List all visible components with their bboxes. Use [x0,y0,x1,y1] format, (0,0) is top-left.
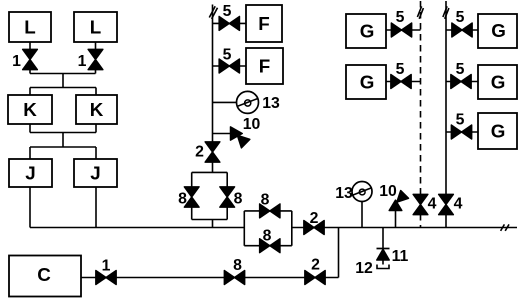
svg-text:2: 2 [311,257,320,274]
wire branch to F2 [213,65,247,67]
svg-text:J: J [25,163,35,184]
wire G left-1 branch [386,29,421,31]
valve 2 bottom line [305,271,325,285]
wire branch to F1 [213,22,247,24]
wire main line right part [292,227,517,229]
valve 5 G right-3 [451,125,471,139]
svg-text:5: 5 [396,61,405,78]
wire K2 inlet stub [95,88,97,96]
svg-text:13: 13 [335,185,353,202]
svg-text:8: 8 [263,228,272,245]
check valve 10 middle: angled triangle [237,135,249,147]
svg-text:K: K [23,99,37,120]
bypass loop 2 rectangle [244,211,291,246]
valve 5 G left-2 [391,75,411,89]
wire K1 outlet stub [29,124,31,133]
valve 8 loop1 right [220,187,235,207]
wire J2 outlet to main line [95,187,97,228]
svg-text:8: 8 [234,191,243,208]
svg-text:13: 13 [262,95,280,112]
valve 1a (under L1) [23,49,38,69]
svg-text:2: 2 [195,144,204,161]
relief valve 11 seat bar [377,248,390,250]
drain stub under valve 11 [382,260,384,265]
svg-text:2: 2 [310,210,319,227]
valve 5 to F1 [219,16,239,30]
valve 8 loop2 top [260,204,280,218]
svg-text:G: G [491,72,506,93]
wire center drop to J header [62,133,64,148]
svg-text:1: 1 [12,53,21,70]
vessel L2 box [74,12,117,42]
svg-text:J: J [90,163,100,184]
break mark solid line [443,6,449,18]
solid supply line [445,1,447,228]
svg-text:10: 10 [243,116,261,133]
drain funnel 12 [377,265,389,269]
svg-text:C: C [37,264,51,285]
vessel C box [9,256,81,297]
wire K1 inlet stub [29,88,31,96]
wire center drop to K header [62,74,64,88]
gauge 13b circle [352,182,372,202]
wire L1 to valve 1a [29,42,31,50]
svg-text:1: 1 [102,258,111,275]
wire stub of check valve 10b [395,211,397,228]
break mark middle riser [209,6,217,19]
svg-text:L: L [90,17,101,38]
break mark dashed line [417,6,423,18]
valve 5 G right-1 [452,23,472,37]
valve 1 after C [96,271,116,285]
svg-text:G: G [491,121,506,142]
svg-text:8: 8 [233,257,242,274]
svg-text:5: 5 [456,61,465,78]
svg-text:4: 4 [454,196,463,213]
wire valve 1a out [29,69,31,74]
wire G right-1 branch [446,29,478,31]
wire header under K [30,132,96,134]
gauge 13 middle internals [238,99,258,107]
gauge 13 middle circle [237,91,259,113]
wire K2 outlet stub [95,124,97,133]
wire C outlet bottom line [81,277,339,279]
valve 4a on dashed line [413,194,428,214]
svg-text:L: L [24,17,35,38]
wire main line left part [30,227,244,229]
svg-text:12: 12 [355,260,373,277]
svg-text:8: 8 [261,192,270,209]
valve 5 G right-2 [451,75,471,89]
wire J1 inlet stub [29,147,31,159]
wire loop 1 to main line [212,220,214,228]
wire G right-2 branch [446,81,478,83]
wire G left-2 branch [386,81,421,83]
vessel J1 box [9,159,52,187]
gauge 13b internals [353,188,371,195]
wire J2 inlet stub [95,147,97,159]
wire branch to relief valve 11 [382,228,384,249]
valve 2 main line [304,221,324,235]
valve 2 middle riser [205,142,220,162]
check valve 10b bottom: angled triangle [397,191,409,203]
svg-text:5: 5 [223,3,232,20]
svg-text:F: F [259,56,270,77]
svg-text:5: 5 [396,9,405,26]
valve 4b on solid line [439,194,454,214]
wire L2 to valve 1b [95,42,97,50]
valve 5 to F2 [219,59,239,73]
svg-text:10: 10 [379,183,397,200]
wire header under valves 1 [30,73,96,75]
vessel G right-2 box [478,65,517,99]
vessel G left-1 box [346,14,386,48]
relief valve 11 triangle [377,249,389,260]
wire branch to check valve 10 [213,133,231,135]
svg-text:K: K [90,99,104,120]
valve 1b (under L2) [88,49,103,69]
svg-text:G: G [360,72,375,93]
svg-text:5: 5 [456,112,465,129]
vessel J2 box [74,159,117,187]
valve 5 G left-1 [391,23,411,37]
wire G right-3 branch [446,131,478,133]
vessel F2 box [246,48,283,84]
svg-text:5: 5 [456,9,465,26]
wire gauge 13b stem [361,201,363,227]
wire branch to gauge 13 [213,101,237,103]
valve 8 bottom line [224,271,244,285]
wire middle riser pipe [212,5,214,173]
vessel L1 box [9,12,51,42]
vessel K1 box [8,95,52,124]
svg-text:1: 1 [78,53,87,70]
svg-text:4: 4 [428,196,437,213]
wire riser bottom line to main line [338,228,340,278]
vessel G right-1 box [478,14,517,48]
check valve 10 middle: horizontal triangle [231,127,243,140]
svg-text:G: G [360,21,375,42]
break mark main line right end [501,224,509,231]
valve 8 loop2 bottom [260,239,280,253]
vessel K2 box [76,95,117,124]
bypass loop 1 rectangle [192,172,228,219]
vessel F1 box [246,5,282,42]
wire valve 1b out [95,69,97,74]
svg-text:5: 5 [223,47,232,64]
wire J1 outlet to main line [29,187,31,228]
wire J header [30,146,96,148]
check valve 10b bottom: vertical triangle [389,200,402,210]
svg-text:G: G [491,20,506,41]
svg-text:8: 8 [178,191,187,208]
vessel G right-3 box [478,113,517,149]
valve 8 loop1 left [184,187,199,207]
svg-text:F: F [258,13,269,34]
wire K header [30,87,96,89]
vessel G left-2 box [346,65,386,99]
dashed supply line [420,1,422,228]
svg-text:11: 11 [392,248,409,265]
